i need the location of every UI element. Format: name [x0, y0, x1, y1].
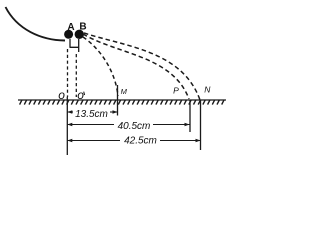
extension line below O — [66, 97, 68, 155]
ball A — [64, 30, 73, 39]
dimension 42.5cm — [67, 139, 200, 143]
extension line below N — [200, 100, 202, 150]
support pillar under balls — [70, 39, 80, 52]
svg-text:B: B — [79, 22, 86, 33]
extension line below M — [117, 85, 119, 116]
svg-text:13.5cm: 13.5cm — [75, 109, 108, 120]
trajectory to P — [83, 34, 189, 99]
svg-text:o: o — [58, 88, 65, 102]
dashed vertical drop line to O — [67, 49, 69, 97]
trajectory to N — [84, 33, 200, 100]
ball B — [75, 30, 84, 39]
svg-text:M: M — [121, 87, 128, 96]
ground hatching — [20, 100, 225, 105]
trajectory to M — [83, 37, 118, 96]
svg-text:o: o — [77, 88, 84, 102]
extension line below P — [189, 100, 191, 132]
dimension 13.5cm — [67, 110, 117, 114]
curved track — [6, 7, 66, 41]
dashed vertical drop line to O' — [75, 54, 77, 97]
svg-text:A: A — [67, 22, 74, 33]
ground line — [18, 99, 226, 101]
svg-text:N: N — [204, 85, 211, 95]
dimension 40.5cm — [67, 123, 189, 127]
svg-text:P: P — [173, 86, 179, 96]
svg-text:42.5cm: 42.5cm — [124, 136, 157, 147]
svg-text:40.5cm: 40.5cm — [118, 121, 151, 132]
